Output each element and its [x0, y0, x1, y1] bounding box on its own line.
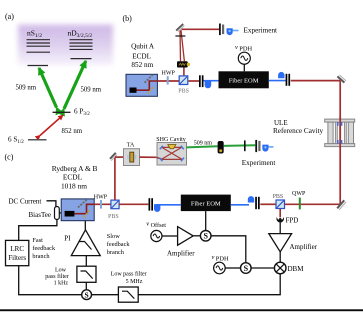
half-wave plate [167, 76, 169, 84]
svg-text:Offset: Offset [151, 222, 167, 229]
wire beam TA to SHG [140, 156, 158, 158]
wire beam laser c to PBS [94, 203, 111, 205]
509 nm green double arrow to nS [39, 68, 57, 108]
svg-text:ULE: ULE [274, 119, 288, 127]
svg-text:852 nm: 852 nm [62, 128, 83, 135]
wire bias tee into laser [59, 212, 61, 214]
grating c [78, 200, 87, 208]
ULE cavity left bore wall [335, 122, 337, 144]
svg-text:(c): (c) [5, 153, 14, 162]
fiber coupler c EOM input [149, 198, 161, 212]
wire oscillator to EOM [243, 64, 245, 71]
SHG input beam stub [157, 158, 162, 159]
svg-text:branch: branch [32, 253, 50, 260]
svg-text:DC Current: DC Current [9, 198, 42, 206]
svg-text:Slow: Slow [107, 233, 120, 240]
laser box Rydberg ECDL [61, 199, 94, 221]
svg-text:Low: Low [55, 268, 67, 274]
svg-text:Low pass filter: Low pass filter [111, 271, 147, 278]
svg-text:1018 nm: 1018 nm [61, 181, 87, 190]
wire DBM down and left to 3MHz filter [138, 274, 280, 295]
nS manifold level lines [27, 40, 51, 53]
laser box Qubit A ECDL [126, 74, 157, 96]
wire beam laser to PBS [158, 80, 180, 82]
ULE cavity top end cap [325, 119, 355, 122]
mirror b right [337, 76, 344, 82]
svg-text:PI: PI [64, 235, 71, 243]
bias tee element [55, 207, 60, 220]
wire diverging beam up 1 [179, 30, 182, 61]
laser diode chip c [65, 211, 75, 217]
svg-text:509 nm: 509 nm [81, 87, 102, 94]
amplifier c triangle [178, 227, 194, 246]
photodetector FPD [276, 217, 284, 223]
wire green beam SHG output [187, 146, 218, 147]
wire 1kHz filter to S3 [85, 282, 87, 290]
svg-text:5 MHz: 5 MHz [126, 279, 143, 285]
fiber coupler b experiment [219, 24, 239, 36]
svg-text:feedback: feedback [32, 245, 56, 252]
wire fiber coupler to EOM c [155, 204, 181, 206]
ULE cavity right bore wall [344, 122, 346, 144]
PBS cube c [111, 200, 119, 209]
wire beam PBS down to FPD [279, 209, 281, 218]
Rydberg manifold purple shaded background [18, 25, 113, 66]
svg-text:Reference Cavity: Reference Cavity [273, 127, 323, 135]
svg-text:PBS: PBS [178, 89, 189, 95]
svg-text:ECDL: ECDL [132, 53, 151, 61]
wire amplifier to DBM [279, 252, 281, 262]
optical isolator green [218, 141, 224, 154]
nD lowest level line [71, 58, 92, 60]
SHG crystal [168, 145, 176, 149]
svg-text:ν: ν [146, 220, 149, 227]
tapered amplifier box [124, 149, 140, 166]
wire PI to 1kHz filter [85, 256, 87, 267]
wire DBM to summer S2 [251, 267, 274, 269]
svg-text:feedback: feedback [107, 241, 131, 248]
wire beam down to cavity and bottom mirror [339, 81, 341, 205]
wire diverging beam up 2 [181, 30, 184, 61]
optical isolator b [177, 61, 188, 67]
svg-text:(a): (a) [5, 12, 14, 21]
summer S1 [200, 231, 211, 242]
nD manifold level lines [70, 40, 93, 50]
PI response curve [79, 242, 92, 250]
wire fiber EOM to coupler right [269, 80, 286, 82]
svg-text:HWP: HWP [162, 71, 176, 77]
TA lens marks [127, 155, 129, 160]
svg-text:DBM: DBM [288, 265, 305, 273]
svg-text:509 nm: 509 nm [194, 141, 213, 147]
wire LRC to summer S3 [19, 266, 82, 295]
svg-text:ν: ν [235, 44, 238, 51]
svg-text:ECDL: ECDL [63, 172, 83, 181]
ULE cavity left outer wall [328, 122, 333, 144]
offset oscillator [151, 230, 162, 241]
6S1/2 level line [28, 139, 47, 141]
wire oscillator to amplifier c [162, 235, 178, 237]
wire beam PBS c right to coupler [119, 203, 148, 205]
509 nm green double arrow to nD [64, 61, 86, 109]
svg-text:pass filter: pass filter [45, 273, 69, 280]
svg-text:PBS: PBS [108, 214, 119, 220]
svg-text:Filters: Filters [8, 254, 26, 262]
852 nm red double arrow [40, 115, 63, 135]
wire S1 to S2 [211, 236, 246, 263]
PDH oscillator c [214, 262, 226, 274]
svg-text:SHG Cavity: SHG Cavity [156, 137, 186, 143]
wire beam mirror to TA [115, 156, 124, 158]
wire DC current to bias tee [47, 201, 56, 207]
svg-text:1 kHz: 1 kHz [54, 281, 69, 287]
cavity mirror top [337, 122, 339, 126]
mirror b top [176, 24, 183, 31]
svg-text:S: S [203, 232, 208, 241]
PBS cube right [276, 200, 285, 209]
isolator yellow dot green [219, 149, 222, 152]
wire S3 to 3MHz filter [92, 294, 119, 296]
wire amplifier to S1 [193, 235, 200, 237]
fiber coupler c EOM output [248, 196, 260, 209]
svg-text:852 nm: 852 nm [131, 61, 153, 69]
wire beam mirror to experiment coupler [182, 28, 220, 30]
cavity mirror bottom [337, 140, 339, 144]
wire fiber EOM c to coupler right [231, 204, 249, 206]
low pass filter 1kHz box [77, 266, 96, 282]
svg-text:S: S [244, 264, 249, 273]
intracavity beam [137, 81, 158, 90]
svg-text:Qubit A: Qubit A [131, 42, 155, 50]
svg-text:Fast: Fast [32, 237, 43, 244]
svg-text:Fiber EOM: Fiber EOM [191, 201, 221, 208]
svg-text:HWP: HWP [94, 194, 108, 200]
quarter-wave plate [299, 198, 301, 210]
low pass filter 3MHz box [118, 287, 138, 302]
iris green [244, 140, 246, 151]
wire beam coupler to mirror [291, 80, 341, 82]
svg-text:TA: TA [127, 142, 135, 148]
grating [145, 75, 153, 83]
half-wave plate c [100, 200, 102, 209]
fiber coupler b EOM input [199, 75, 211, 88]
fiber EOM c [181, 195, 231, 212]
svg-text:Experiment: Experiment [244, 26, 278, 34]
wire fiber PBS to EOM [204, 80, 219, 82]
piezo arrow c [84, 210, 90, 217]
6P3/2 level line [53, 111, 71, 113]
mirror c [110, 153, 116, 159]
intracavity beam c [74, 204, 94, 213]
svg-text:branch: branch [107, 249, 125, 256]
svg-text:509 nm: 509 nm [16, 85, 37, 92]
mirror bottom right [337, 200, 344, 208]
PDH local oscillator [238, 52, 250, 64]
wire beam PBS up to isolator [183, 67, 185, 75]
mixer DBM [274, 262, 286, 274]
PBS cube b [179, 76, 188, 85]
isolator yellow dot [187, 63, 190, 66]
piezo arrow [148, 87, 154, 93]
wire bias tee down to LRC [19, 220, 57, 241]
SHG bowtie beams [161, 147, 182, 159]
svg-text:Amplifier: Amplifier [167, 250, 195, 258]
wire laser c down to PI [84, 221, 86, 230]
svg-text:LRC: LRC [10, 245, 24, 253]
svg-text:QWP: QWP [292, 191, 306, 197]
svg-text:(b): (b) [123, 14, 133, 23]
wire beam through cavity bore [339, 117, 341, 149]
SHG cavity box [157, 143, 187, 166]
PI controller triangle [71, 230, 100, 256]
TA chip [130, 152, 134, 162]
iris aperture [175, 35, 185, 37]
LRC filters box [6, 240, 29, 265]
svg-text:BiasTee: BiasTee [29, 211, 51, 219]
fiber EOM b [219, 71, 269, 88]
ULE cavity bottom end cap [325, 144, 355, 147]
wire beam PBS to coupler [189, 80, 201, 82]
svg-text:FPD: FPD [286, 217, 299, 225]
svg-text:S: S [85, 290, 89, 299]
wire EOM c down to S1 [205, 211, 207, 230]
wire beam PBS to QWP to mirror [285, 203, 340, 205]
svg-text:Amplifier: Amplifier [290, 243, 318, 251]
summer S3 [82, 290, 92, 300]
fiber coupler b EOM output [278, 72, 290, 86]
ULE cavity right outer wall [348, 122, 353, 144]
nS lowest level line [28, 65, 49, 67]
wire oscillator to S2 [225, 267, 240, 269]
SHG corner mirrors [159, 146, 184, 161]
summer S2 [241, 263, 252, 274]
wire beam coupler to PBS right [260, 203, 276, 205]
svg-text:PDH: PDH [239, 45, 252, 52]
svg-text:Fiber EOM: Fiber EOM [229, 78, 259, 85]
amplifier right triangle [269, 234, 292, 252]
wire FPD to amplifier [279, 222, 281, 233]
fiber coupler green experiment [255, 140, 273, 152]
svg-text:ν: ν [212, 254, 215, 261]
laser diode chip [130, 88, 137, 93]
wire beam PBS c up to mirror [114, 157, 116, 200]
svg-text:Experiment: Experiment [242, 159, 276, 167]
figure bottom rule [0, 309, 363, 311]
svg-text:PDH: PDH [216, 255, 229, 262]
svg-text:PBS: PBS [273, 194, 284, 200]
